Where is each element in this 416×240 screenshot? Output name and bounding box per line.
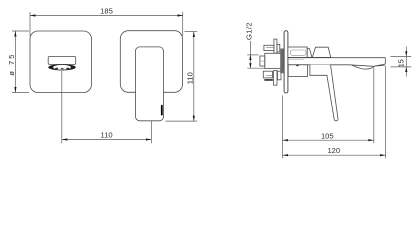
svg-text:105: 105 [321, 131, 334, 140]
dim 15 arrows [405, 51, 407, 72]
side view: top inlet pipe [274, 39, 277, 53]
front view: left wall plate [30, 31, 92, 93]
left G1/2 port [260, 56, 265, 66]
svg-text:110: 110 [186, 72, 195, 84]
dim 110 bottom line [62, 139, 152, 141]
handle lever (front) [136, 47, 164, 121]
side view: wall plate edge [284, 31, 288, 93]
dim 185 extension lines [30, 12, 183, 36]
dim 185 arrows [30, 14, 183, 16]
svg-text:185: 185 [100, 6, 113, 15]
top inlet collar [277, 44, 280, 52]
handle logo tick [161, 105, 163, 116]
dim 110 bottom extension lines [62, 71, 152, 143]
handle wedge [307, 48, 312, 57]
spout aerator bulge [352, 65, 374, 69]
dim 185 line [30, 15, 183, 17]
spout underside lens upper [349, 65, 374, 67]
side view: handle lever [310, 65, 338, 121]
dim 110 right extension lines [166, 32, 198, 122]
front view: right wall plate [120, 31, 182, 93]
svg-text:15: 15 [396, 59, 405, 67]
spout root inner line [288, 58, 304, 60]
side view: bottom outlet elbow [263, 71, 272, 78]
dim phi75 line [14, 31, 16, 93]
set screw bump under spout [296, 65, 299, 66]
dim 110 right line [193, 32, 195, 122]
handle knob trapezoid [312, 47, 330, 57]
spout body (front) [48, 56, 75, 64]
svg-text:ø 75: ø 75 [7, 53, 16, 76]
cartridge cover inner line [290, 50, 306, 55]
aerator face white inset [53, 65, 71, 70]
dim 15 extension lines [391, 56, 412, 67]
G1/2 extension lines [247, 55, 265, 68]
dim 110 right arrows [193, 32, 195, 122]
bottom outlet collar [278, 71, 282, 80]
dim phi75 arrows [14, 31, 16, 93]
side view: valve body [265, 53, 284, 68]
spout tip underside tail [375, 64, 385, 67]
svg-text:G1/2: G1/2 [244, 22, 253, 40]
side view: cartridge cover bar [288, 47, 307, 57]
svg-text:110: 110 [101, 130, 113, 139]
side view: spout tube [288, 58, 385, 67]
bottom elbow dark edge [264, 79, 273, 81]
aerator slots [55, 68, 69, 69]
dim 120 extension line right [385, 66, 387, 158]
bottom outlet pipe [274, 71, 277, 86]
dim 120 line [283, 154, 386, 156]
spout base block under tube [288, 65, 307, 77]
dim 120 arrows [283, 154, 386, 156]
dim phi75 extension lines [12, 31, 29, 93]
svg-text:120: 120 [327, 146, 340, 155]
dim 110 bottom arrows [62, 138, 152, 140]
dim 105 extension lines [283, 68, 374, 159]
dim 15 line [405, 47, 407, 77]
G1/2 leader line [249, 41, 251, 68]
dim 105 arrows [283, 139, 374, 141]
G1/2 arrows [249, 55, 251, 68]
wall section dark band [280, 49, 284, 74]
dim 105 line [283, 139, 374, 141]
top inlet elbow [264, 45, 274, 50]
spout underside aerator ellipse [48, 64, 75, 70]
